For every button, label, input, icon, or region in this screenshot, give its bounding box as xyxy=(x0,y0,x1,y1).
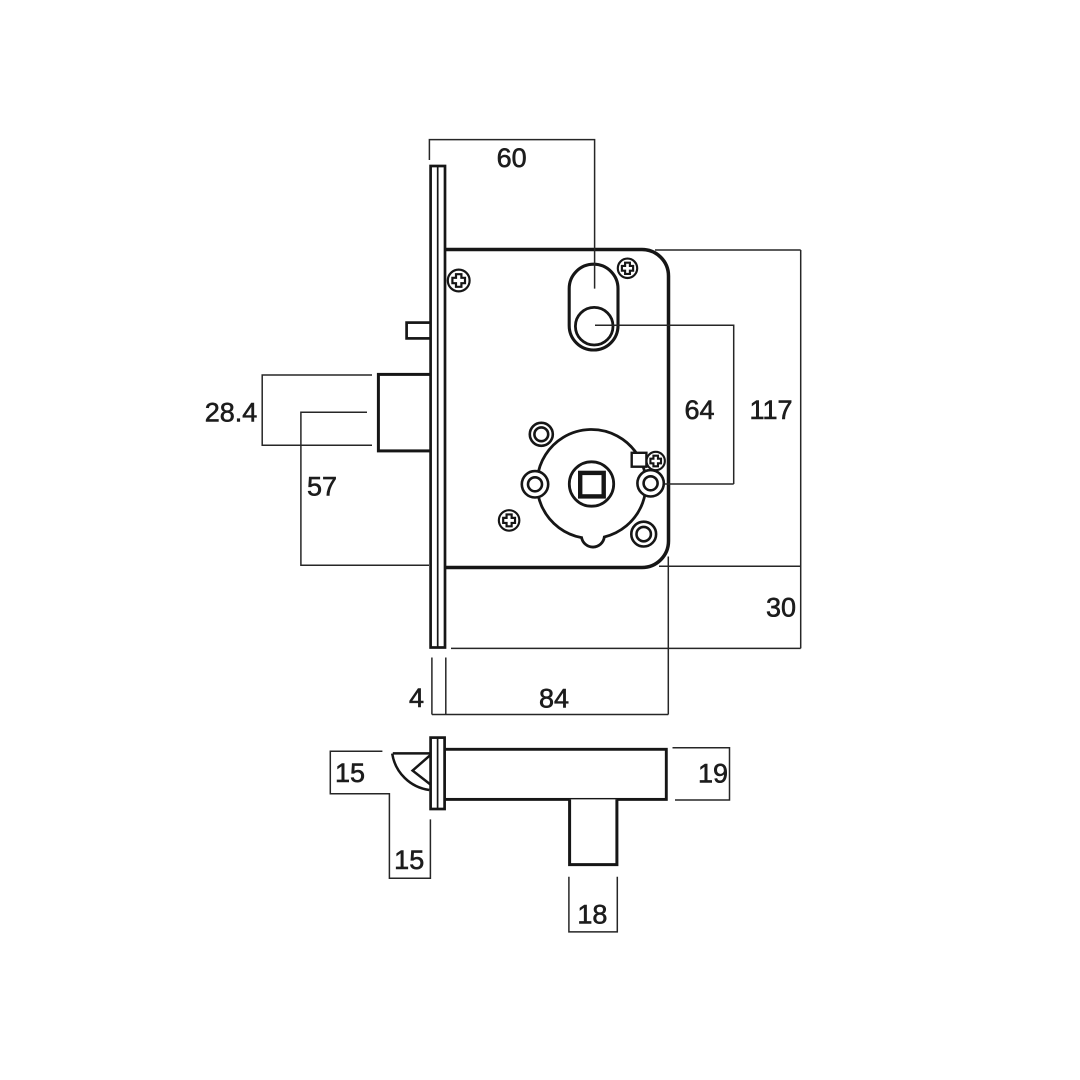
stop tab rect xyxy=(632,453,647,467)
faceplate front centerline xyxy=(437,166,439,648)
hub inner circle xyxy=(569,462,613,506)
screw right-middle xyxy=(647,452,665,470)
dim 117/30 right line xyxy=(800,250,802,648)
dim 15 upper bracket xyxy=(330,751,430,878)
svg-text:4: 4 xyxy=(409,683,424,713)
dim 4 tick left xyxy=(431,658,433,715)
side view lock case xyxy=(444,749,666,799)
side view faceplate centerline xyxy=(437,738,439,809)
svg-text:60: 60 xyxy=(497,143,527,173)
dim 84 right extension xyxy=(667,557,669,715)
auxiliary bolt front view xyxy=(407,323,432,339)
svg-text:117: 117 xyxy=(749,395,792,425)
dimension lines xyxy=(262,140,801,932)
dim 30 top line xyxy=(659,565,801,567)
side view latch bolt beak xyxy=(392,753,431,790)
dim 60 bracket xyxy=(429,140,594,289)
side view faceplate xyxy=(431,738,445,809)
svg-text:18: 18 xyxy=(577,900,607,930)
dim 4 tick right xyxy=(445,658,447,715)
svg-text:15: 15 xyxy=(335,758,365,788)
dim 64 bottom tick xyxy=(665,483,734,485)
faceplate front view xyxy=(431,166,445,648)
svg-text:15: 15 xyxy=(394,845,424,875)
dim 64 leader xyxy=(595,325,734,484)
svg-text:19: 19 xyxy=(698,759,728,789)
dim 117/30 bottom line xyxy=(451,647,801,649)
dim 117 top line xyxy=(655,249,801,251)
screw bottom-left xyxy=(499,510,519,530)
dim 28.4 bracket xyxy=(262,375,372,445)
lock case body xyxy=(444,250,669,568)
screw top-right xyxy=(618,259,637,278)
fixing hole ring top-left xyxy=(530,423,553,446)
screw top-left xyxy=(448,270,470,292)
svg-text:57: 57 xyxy=(307,472,337,502)
svg-text:84: 84 xyxy=(539,684,569,714)
svg-text:30: 30 xyxy=(766,593,796,623)
dim 18 bracket xyxy=(569,877,617,932)
follower hub circle with bottom lug xyxy=(537,429,646,547)
fixing hole ring bottom-right xyxy=(631,522,656,547)
svg-text:28.4: 28.4 xyxy=(205,398,258,428)
dim 57 leader xyxy=(301,412,429,565)
cylinder hole oval xyxy=(569,264,618,350)
fixing hole ring right xyxy=(637,470,663,496)
svg-text:64: 64 xyxy=(684,395,714,425)
dim 84 line xyxy=(432,714,668,716)
side view spindle follower protrusion xyxy=(570,799,617,864)
cylinder bore circle xyxy=(575,307,613,345)
spindle square hole xyxy=(580,473,604,497)
fixing hole ring left xyxy=(522,471,548,497)
latch bolt front view xyxy=(378,374,432,451)
dim 19 bracket xyxy=(673,748,730,800)
